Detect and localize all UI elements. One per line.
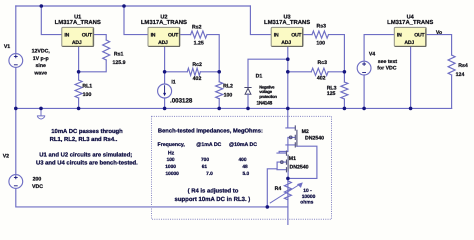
transistor M1 channel and gate <box>287 151 289 172</box>
resistor RL3 <box>341 82 348 99</box>
V4 plus minus <box>362 62 366 72</box>
wire D1 branch <box>248 59 288 87</box>
wire RL2 to ground rail <box>218 99 220 109</box>
wire RL3 to ground rail <box>343 99 345 108</box>
svg-text:IN: IN <box>274 33 279 39</box>
svg-text:@1mA DC: @1mA DC <box>196 142 221 148</box>
junction at (41.3,6) <box>40 4 44 8</box>
wire U2 OUT to Rs2 <box>180 34 191 36</box>
svg-text:Rc2: Rc2 <box>192 62 202 68</box>
svg-text:protection: protection <box>259 94 277 99</box>
V2 plus minus <box>14 176 18 186</box>
svg-text:D1: D1 <box>256 73 263 79</box>
wire U4 OUT to Rs4 <box>426 35 451 55</box>
svg-text:LM317A_TRANS: LM317A_TRANS <box>55 19 101 26</box>
svg-text:M2: M2 <box>302 129 309 135</box>
wire U3 OUT to Rs3 <box>303 34 312 36</box>
svg-text:Bench-tested Impedances, MegOh: Bench-tested Impedances, MegOhms: <box>158 127 263 134</box>
svg-text:RL1: RL1 <box>82 83 92 89</box>
svg-text:DN2540: DN2540 <box>305 136 324 142</box>
resistor Rs4 <box>448 55 455 75</box>
resistor Rc2 <box>187 68 200 75</box>
svg-text:support 10mA DC in RL3. ): support 10mA DC in RL3. ) <box>175 196 251 203</box>
svg-text:.003128: .003128 <box>170 98 193 105</box>
svg-text:125: 125 <box>327 91 336 97</box>
svg-text:ADJ: ADJ <box>158 40 168 46</box>
svg-text:100: 100 <box>316 40 325 46</box>
svg-text:U3 and U4 circuits are bench-t: U3 and U4 circuits are bench-tested. <box>36 160 138 167</box>
svg-text:100: 100 <box>167 157 175 163</box>
voltage source V4 <box>357 61 371 75</box>
junction at (41,108.4) <box>39 107 43 111</box>
resistor Rc3 <box>311 68 328 75</box>
junction at (287.8,108.4) <box>286 107 290 111</box>
junction at (344.4,71.8) <box>343 70 347 74</box>
svg-text:ADJ: ADJ <box>404 40 414 46</box>
voltage source V2 <box>9 175 23 189</box>
junction at (364.1,108.4) <box>362 107 366 111</box>
junction at (287.8,71.8) <box>286 70 290 74</box>
op-amp regulator U2 <box>148 27 180 46</box>
junction at (287.8,59.2) <box>286 57 290 61</box>
svg-text:10000: 10000 <box>302 194 316 200</box>
resistor Rs1 <box>103 40 110 60</box>
svg-text:VDC: VDC <box>32 184 43 190</box>
resistor Rs2 <box>191 31 207 38</box>
junction at (219.2,108.4) <box>217 107 221 111</box>
svg-text:ohms: ohms <box>300 200 313 206</box>
wire D1 to ground rail <box>247 94 249 109</box>
junction at (164.6,71.8) <box>163 70 167 74</box>
wire RL1 to ground rail <box>78 98 80 108</box>
junction at (124,6) <box>122 4 126 8</box>
wire ADJ node to Rc2 <box>165 71 188 73</box>
wire V1 column <box>15 6 17 175</box>
junction at (248,108.4) <box>246 107 250 111</box>
svg-text:48: 48 <box>242 164 248 170</box>
svg-text:ADJ: ADJ <box>281 40 291 46</box>
svg-text:OUT: OUT <box>291 33 302 39</box>
wire U1 IN feed <box>41 6 62 35</box>
wire V4 to ground rail <box>363 75 365 108</box>
svg-text:I1: I1 <box>171 80 175 86</box>
svg-text:ADJ: ADJ <box>72 40 82 46</box>
junction at (78.6,108.4) <box>77 107 81 111</box>
junction at (410.6,108.4) <box>409 107 413 111</box>
ground <box>37 108 45 119</box>
transistor M1 leads <box>267 152 286 207</box>
junction at (15.8,108.4) <box>14 107 18 111</box>
wire M1 gate bar to R4 node <box>287 171 289 178</box>
svg-text:402: 402 <box>317 76 326 82</box>
op-amp regulator U1 <box>62 27 94 46</box>
wire mid ground rail <box>16 107 452 109</box>
wire V4 to U4 IN <box>364 35 394 62</box>
svg-text:Rs4: Rs4 <box>458 63 468 69</box>
wire top rail <box>16 5 251 7</box>
diode D1 <box>245 88 251 95</box>
svg-text:Rs2: Rs2 <box>192 25 202 31</box>
svg-text:Hz: Hz <box>168 150 175 156</box>
svg-text:see text: see text <box>378 59 398 65</box>
wire U2 ADJ pin <box>164 46 166 84</box>
wire Rs2 to RL2 column <box>207 35 219 82</box>
svg-text:10 -: 10 - <box>303 188 312 194</box>
svg-text:12VDC,: 12VDC, <box>32 49 51 55</box>
svg-text:61: 61 <box>202 164 208 170</box>
svg-text:@10mA DC: @10mA DC <box>229 142 257 148</box>
svg-text:V4: V4 <box>369 52 375 58</box>
transistor M2 channel and gate <box>295 126 297 147</box>
svg-text:OUT: OUT <box>414 33 425 39</box>
wire M2 gate to lower node <box>288 146 317 178</box>
svg-text:V1: V1 <box>4 44 10 50</box>
dashed annotation box <box>152 116 332 219</box>
svg-text:7.0: 7.0 <box>206 171 213 177</box>
wire Rs1 bottom to ADJ node <box>79 60 107 72</box>
svg-text:LM317A_TRANS: LM317A_TRANS <box>264 19 310 26</box>
junction at (78.6,71.8) <box>77 70 81 74</box>
svg-text:100: 100 <box>83 92 92 98</box>
wire V2 bottom to bottom rail <box>16 188 288 207</box>
resistor Rs3 <box>312 31 329 38</box>
svg-text:M1: M1 <box>289 156 296 162</box>
I1 arrow <box>164 85 166 94</box>
resistor RL2 <box>216 82 223 99</box>
wire ADJ node to Rc3 <box>288 71 312 73</box>
svg-text:1.25: 1.25 <box>194 40 204 46</box>
svg-text:OUT: OUT <box>82 33 93 39</box>
svg-text:U1 and U2 circuits are simulat: U1 and U2 circuits are simulated; <box>39 152 132 159</box>
wire Rs4 to ground rail <box>451 75 453 108</box>
svg-text:Rs3: Rs3 <box>317 24 327 30</box>
svg-text:125.9: 125.9 <box>113 60 126 66</box>
svg-text:Rc3: Rc3 <box>318 60 328 66</box>
svg-text:Rs1: Rs1 <box>114 51 124 57</box>
svg-text:LM317A_TRANS: LM317A_TRANS <box>387 19 433 26</box>
op-amp regulator U3 <box>271 27 303 46</box>
wire U3 ADJ pin down to rail <box>287 46 289 108</box>
junction at (344.4,108.4) <box>343 107 347 111</box>
wire U1 ADJ pin <box>78 46 80 80</box>
svg-text:10mA DC passes through: 10mA DC passes through <box>51 128 123 135</box>
wire U3 IN feed <box>250 6 271 35</box>
wire Rc3 to RL3 node <box>328 71 344 73</box>
svg-text:IN: IN <box>151 33 156 39</box>
transistor M2 leads <box>279 108 295 151</box>
svg-text:V2: V2 <box>3 153 9 159</box>
wire U1 OUT to Rs1 <box>94 35 107 40</box>
junction at (164.6,108.4) <box>163 107 167 111</box>
svg-text:for VDC: for VDC <box>377 66 397 72</box>
svg-text:1V p-p: 1V p-p <box>33 56 49 62</box>
svg-text:wave: wave <box>33 70 47 76</box>
svg-text:1000: 1000 <box>165 164 176 170</box>
svg-text:200: 200 <box>33 177 42 183</box>
wire Rc2 to RL2 node <box>200 71 219 73</box>
svg-text:sine: sine <box>36 63 46 69</box>
junction at (219.2,71.8) <box>217 70 221 74</box>
svg-text:402: 402 <box>193 76 202 82</box>
transistor M1 bulk circle <box>281 161 284 164</box>
R4 wiper arrow <box>270 182 303 203</box>
V1 plus minus <box>14 55 18 65</box>
current source I1 <box>158 84 172 98</box>
svg-text:1N4148: 1N4148 <box>257 101 273 107</box>
potentiometer R4 <box>284 178 291 240</box>
svg-text:LM317A_TRANS: LM317A_TRANS <box>141 19 187 26</box>
svg-text:IN: IN <box>397 33 402 39</box>
svg-text:Vo: Vo <box>436 30 442 36</box>
svg-text:5.0: 5.0 <box>242 171 249 177</box>
svg-text:Frequency,: Frequency, <box>158 142 186 148</box>
junction at (267.3,206.9) <box>266 205 270 209</box>
svg-text:RL2: RL2 <box>223 83 233 89</box>
svg-text:R4: R4 <box>275 186 282 192</box>
wire Rs3 to RL3 column <box>329 35 345 82</box>
svg-text:DN2540: DN2540 <box>289 165 308 171</box>
wire U4 ADJ pin down to rail <box>410 46 412 108</box>
wire U2 IN feed <box>124 6 148 35</box>
svg-text:IN: IN <box>64 33 69 39</box>
svg-text:700: 700 <box>201 157 209 163</box>
wire I1 to ground rail <box>164 98 166 108</box>
resistor RL1 <box>75 80 82 98</box>
svg-text:OUT: OUT <box>168 33 179 39</box>
svg-text:10000: 10000 <box>166 171 180 177</box>
svg-text:100: 100 <box>224 92 233 98</box>
svg-text:( R4 is adjusted to: ( R4 is adjusted to <box>188 187 239 194</box>
svg-text:RL1, RL2, RL3 and Rs4..: RL1, RL2, RL3 and Rs4.. <box>50 136 118 143</box>
svg-text:124: 124 <box>456 72 465 78</box>
transistor M2 bulk circle <box>289 136 292 139</box>
junction at (287.9,178.4) <box>286 177 290 181</box>
op-amp regulator U4 <box>394 27 426 46</box>
voltage source V1 <box>9 54 23 68</box>
svg-text:400: 400 <box>238 157 246 163</box>
